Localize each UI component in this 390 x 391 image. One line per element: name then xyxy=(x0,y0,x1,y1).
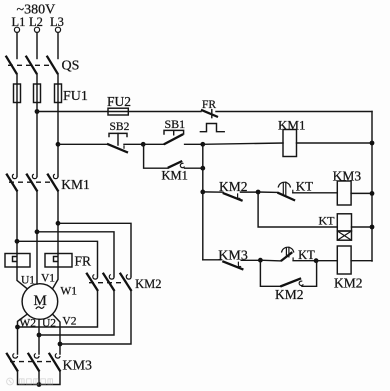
svg-text:QS: QS xyxy=(62,58,80,73)
wire L1 to QS xyxy=(16,33,18,59)
svg-text:FU2: FU2 xyxy=(107,94,131,109)
self-hold contact KM2 (NO) xyxy=(260,260,316,302)
fuse FU1 xyxy=(14,84,88,104)
switch QS xyxy=(6,56,80,74)
interlock contact KM3 (NC) xyxy=(218,248,260,269)
wire FR to right rail xyxy=(216,111,372,113)
junction pole1 delta tap xyxy=(15,239,20,244)
wire star point bar xyxy=(18,372,61,385)
wire delta tap pole1 to KM2 pole a xyxy=(17,241,98,276)
svg-text:SB2: SB2 xyxy=(110,121,130,133)
junction KM1 branch xyxy=(200,166,205,171)
coil KT with delay element xyxy=(258,192,372,240)
wire L3 tap to SB2 xyxy=(58,143,107,145)
wire FR to motor U1 xyxy=(17,267,27,289)
pushbutton SB1 (NO start) xyxy=(143,117,203,144)
interlock contact KM2 (NC) xyxy=(203,179,258,201)
wire U2 to KM2 pole b xyxy=(39,292,114,336)
coil KM3 xyxy=(333,169,372,206)
wire L3 to QS xyxy=(57,33,59,59)
svg-text:FR: FR xyxy=(75,254,92,269)
wire motor U2 down to KM3 xyxy=(38,319,40,354)
svg-text:KM1: KM1 xyxy=(162,169,188,183)
contactor KM3 star contacts xyxy=(6,353,92,374)
overload contact FR (NC) xyxy=(200,99,224,132)
wire QS to FU1 pole2 xyxy=(36,74,38,84)
auxiliary contact KM1 (self hold, NO) xyxy=(144,144,203,182)
wire KM1 pole3 to FR element xyxy=(57,192,59,254)
wire L2 tap to FU2 xyxy=(37,111,108,113)
junction main line / vertical xyxy=(200,142,205,147)
junction rung2 xyxy=(200,190,205,195)
junction V2 to KM2 pole c xyxy=(58,342,63,347)
motor M xyxy=(22,284,58,320)
junction KT coil branch xyxy=(256,190,261,195)
svg-text:KM2: KM2 xyxy=(334,276,363,291)
svg-text:FR: FR xyxy=(202,99,216,111)
wire delta tap pole2 to KM2 pole b xyxy=(37,232,114,277)
junction KT coil / rail xyxy=(370,225,375,230)
vertical feeder control xyxy=(202,144,204,259)
wire W2 to KM2 pole a xyxy=(18,292,98,328)
node L2 xyxy=(29,15,43,32)
svg-text:V1: V1 xyxy=(41,272,55,284)
time contact KT (delay, rung2) xyxy=(258,179,337,201)
svg-text:KT: KT xyxy=(296,179,313,194)
svg-text:KM1: KM1 xyxy=(61,177,90,192)
wire motor W2 down to KM3 xyxy=(18,314,28,354)
junction KM3 coil / rail xyxy=(370,191,375,196)
junction SB2/SB1/KM1 xyxy=(141,142,146,147)
junction KT / KM2 coil xyxy=(314,258,319,263)
svg-text:KM2: KM2 xyxy=(135,277,161,291)
wire QS to FU1 pole1 xyxy=(16,74,18,84)
junction L3 tap to control xyxy=(56,142,61,147)
wire KM1 pole1 to FR element xyxy=(16,192,18,254)
junction pole3 delta tap xyxy=(56,221,61,226)
fuse FU2 xyxy=(107,94,201,115)
wire V2 to KM2 pole c xyxy=(60,292,131,345)
pushbutton SB2 (NC stop) xyxy=(107,121,143,153)
junction L2 tap to FU2 xyxy=(35,109,40,114)
wire FU1 pole3 to KM1 main contact xyxy=(57,103,59,177)
node L1 xyxy=(12,15,26,32)
coil KM2 xyxy=(316,246,372,291)
wire L2 to QS xyxy=(36,33,38,59)
thermal relay FR heater elements xyxy=(5,254,91,269)
time contact KT (rung3) xyxy=(260,247,316,262)
svg-text:KT: KT xyxy=(298,248,315,262)
svg-text:U1: U1 xyxy=(21,275,35,287)
svg-text:M: M xyxy=(34,293,47,309)
svg-text:KM1: KM1 xyxy=(278,118,305,133)
svg-text:SB1: SB1 xyxy=(165,117,186,131)
contactor KM2 delta contacts xyxy=(86,273,161,291)
wire FU1 pole1 to KM1 main contact xyxy=(16,103,18,177)
node L3 xyxy=(50,15,64,33)
rung3 feeder corner xyxy=(203,259,221,261)
wire KM1 pole2 down to motor V1 xyxy=(36,192,38,285)
contactor KM1 main contacts xyxy=(6,174,90,192)
wire delta tap pole3 to KM2 pole c xyxy=(58,223,131,276)
svg-text:KT: KT xyxy=(319,214,336,228)
wire FU1 pole2 to KM1 main contact xyxy=(36,103,38,177)
junction W2 to KM2 pole a xyxy=(15,325,20,330)
svg-text:FU1: FU1 xyxy=(63,89,88,104)
wire QS to FU1 pole3 xyxy=(57,74,59,84)
wire motor V2 down to KM3 xyxy=(53,314,61,354)
junction U2 to KM2 pole b xyxy=(37,333,42,338)
coil KM1 xyxy=(203,118,372,157)
svg-text:KM3: KM3 xyxy=(63,358,93,373)
junction KM1 coil / rail xyxy=(370,141,375,146)
wire FR to motor W1 xyxy=(53,267,59,289)
svg-text:V2: V2 xyxy=(62,315,76,327)
junction star point xyxy=(37,382,42,387)
svg-text:L1: L1 xyxy=(12,15,26,29)
svg-text:W1: W1 xyxy=(60,286,77,298)
svg-text:KM2: KM2 xyxy=(275,287,304,302)
right rail xyxy=(371,112,373,262)
junction KM2 self-hold branch xyxy=(258,258,263,263)
watermark xyxy=(7,378,53,385)
svg-text:L3: L3 xyxy=(50,15,64,29)
junction pole2 delta tap xyxy=(35,229,40,234)
